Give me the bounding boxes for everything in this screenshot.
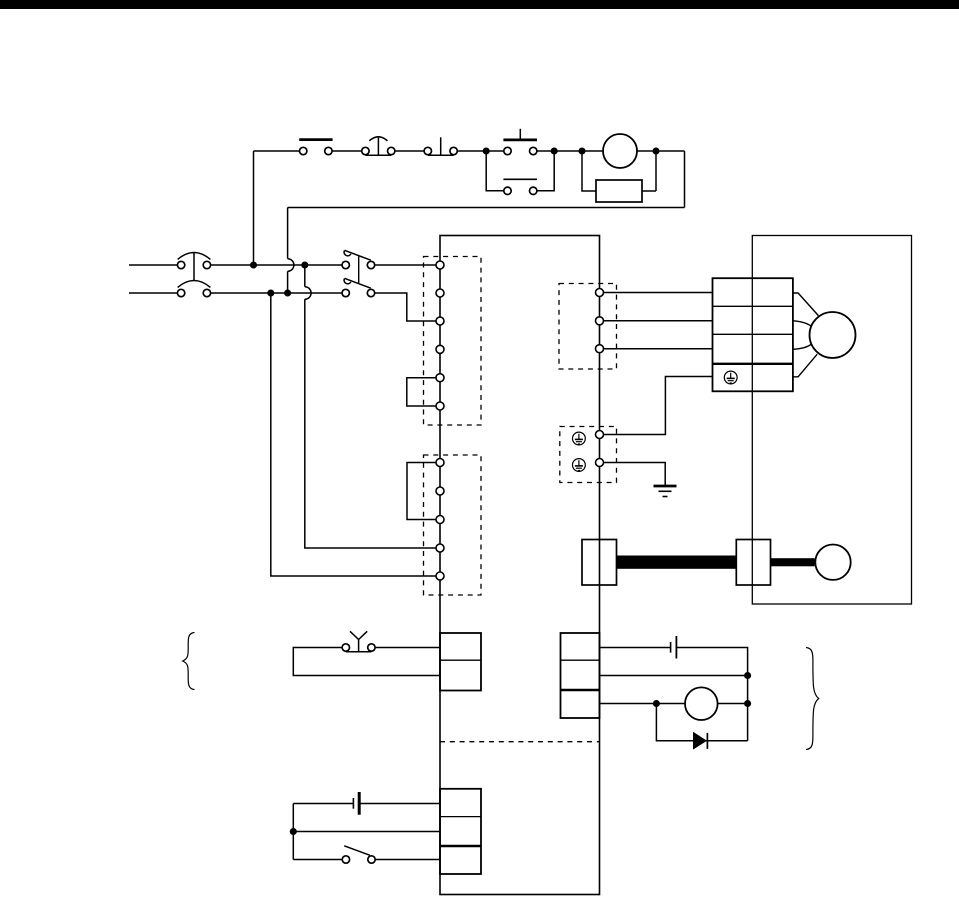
power line L1 xyxy=(129,264,177,266)
shaft end circle xyxy=(815,545,850,580)
terminal TB1-1 xyxy=(436,261,444,269)
node junction right of S4 xyxy=(551,148,557,154)
terminal TB1-2 xyxy=(436,289,444,297)
node junction L1 to terminal 4 tap xyxy=(302,262,308,268)
wire TB3-1 to motor block xyxy=(604,292,713,294)
wire terminal 5 feed xyxy=(271,293,436,576)
pushbutton S4 NC with stem xyxy=(503,129,537,155)
resistor R1 branch xyxy=(582,151,656,202)
circuit breaker QF pole 1 xyxy=(177,253,210,269)
wire TB3-2 to motor block xyxy=(604,320,713,322)
terminal TB2-2 xyxy=(436,487,444,495)
wire battery branch vertical xyxy=(292,804,294,860)
power line L2 xyxy=(129,292,177,294)
clutch terminal block xyxy=(440,633,481,691)
terminal TB1-3 xyxy=(436,317,444,325)
terminal TB4-1 xyxy=(596,431,604,439)
right brace xyxy=(806,648,819,750)
wire xyxy=(537,150,554,152)
battery B1 xyxy=(353,792,359,815)
machine enclosure box xyxy=(752,236,911,605)
wire clutch row2 loop xyxy=(293,648,440,676)
wire motor lead 3 xyxy=(793,344,811,349)
wire battery row1 right xyxy=(359,803,440,805)
header bar xyxy=(0,0,959,9)
dashed terminal group box TB4 xyxy=(560,427,617,483)
motor M circle xyxy=(810,312,856,358)
wire relay row3 left xyxy=(600,703,686,705)
pushbutton S3 NO xyxy=(424,137,457,155)
wire xyxy=(332,150,362,152)
wire switch row3 left xyxy=(293,859,342,861)
battery B2 xyxy=(671,636,677,659)
wire motor lead PE xyxy=(793,354,817,377)
wire control row segment 1 xyxy=(254,150,300,152)
wire motor PE to ground terminal xyxy=(604,377,713,435)
pushbutton S2 mushroom-head xyxy=(362,137,395,156)
terminal TB2-5 xyxy=(436,572,444,580)
wire xyxy=(637,150,685,152)
coil M1 circle xyxy=(603,134,637,168)
wire xyxy=(457,150,504,152)
circuit breaker QF pole 2 xyxy=(177,281,210,297)
wire motor lead 2 xyxy=(793,321,812,327)
wire TB4-2 to earth xyxy=(604,463,666,486)
wire relay row1 left xyxy=(600,647,671,649)
terminal TB3-3 xyxy=(596,345,604,353)
node junction left of S4 xyxy=(483,148,489,154)
PE symbol TB4 upper xyxy=(573,432,586,445)
main unit box xyxy=(440,236,600,895)
wire relay row3 right xyxy=(718,703,748,705)
wire control row return xyxy=(288,207,685,209)
wire control row right vertical xyxy=(684,151,686,208)
node junction row2 right xyxy=(745,673,751,679)
contactor KM link xyxy=(358,256,360,284)
wire TB3-3 to motor block xyxy=(604,348,713,350)
terminal TB1-5 xyxy=(436,374,444,382)
terminal TB3-2 xyxy=(596,317,604,325)
terminal TB3-1 xyxy=(596,289,604,297)
contactor KM pole 1 xyxy=(342,250,375,268)
node junction branch to resistor xyxy=(579,148,585,154)
auxiliary contact S5 parallel branch xyxy=(486,151,554,195)
wire KM pole1 to terminal 1 xyxy=(375,264,436,266)
node junction L2 control return tap xyxy=(285,290,291,296)
wire clutch row1 xyxy=(376,647,440,649)
contactor KM pole 2 xyxy=(342,278,375,296)
terminal TB2-1 xyxy=(436,459,444,467)
node junction L1 control tap xyxy=(251,262,257,268)
circuit breaker QF link xyxy=(193,253,195,281)
wire control row left vertical xyxy=(253,151,255,265)
terminal TB1-4 xyxy=(436,345,444,353)
lamp L circle xyxy=(685,687,718,720)
dashed terminal group box TB3 xyxy=(559,284,617,370)
wire xyxy=(395,150,424,152)
PE symbol in motor block xyxy=(724,371,737,384)
battery terminal block xyxy=(440,789,481,874)
dashed terminal group box TB2 xyxy=(424,455,482,595)
left brace xyxy=(183,633,195,690)
shaft coupling left block xyxy=(582,540,617,586)
terminal TB2-3 xyxy=(436,516,444,524)
diode D1 xyxy=(693,732,707,750)
node junction L2 to terminal 5 tap xyxy=(268,290,274,296)
shaft coupling right block xyxy=(736,540,770,586)
wire motor lead 1 xyxy=(793,293,819,316)
node junction row3 left xyxy=(654,701,660,707)
node junction battery branch xyxy=(291,829,297,835)
switch S1 NC contact xyxy=(299,140,332,155)
dashed terminal group box TB1 xyxy=(424,257,482,426)
node junction row3 right xyxy=(745,701,751,707)
terminal TB2-4 xyxy=(436,544,444,552)
wire KM pole2 to terminal 3 xyxy=(375,293,436,321)
motor terminal block xyxy=(713,278,793,391)
relay terminal block xyxy=(561,633,600,718)
terminal TB4-2 xyxy=(596,459,604,467)
PE symbol TB4 lower xyxy=(573,459,586,472)
earth ground symbol xyxy=(654,486,677,497)
wire xyxy=(554,150,603,152)
wire relay row2 xyxy=(600,675,748,677)
wire battery row2 xyxy=(293,831,440,833)
wire relay row1 right xyxy=(676,648,747,741)
thermal switch S6 xyxy=(342,631,375,652)
wire terminal 4 feed with hop over L2 xyxy=(304,265,306,287)
wire battery row1 left xyxy=(293,803,353,805)
wire vertical to L2 with hop over L1 xyxy=(287,208,289,259)
switch S7 xyxy=(342,846,375,863)
node junction right of coil xyxy=(653,148,659,154)
terminal TB1-6 xyxy=(436,402,444,410)
jumper link TB2-1 to TB2-3 xyxy=(407,463,436,520)
wire switch row3 right xyxy=(375,859,440,861)
wire diode branch xyxy=(656,704,747,741)
dashed internal divider xyxy=(440,741,600,743)
shaft bar thin xyxy=(770,558,815,566)
shaft bar thick xyxy=(617,556,737,569)
jumper link TB1-5 to TB1-6 xyxy=(407,378,436,406)
